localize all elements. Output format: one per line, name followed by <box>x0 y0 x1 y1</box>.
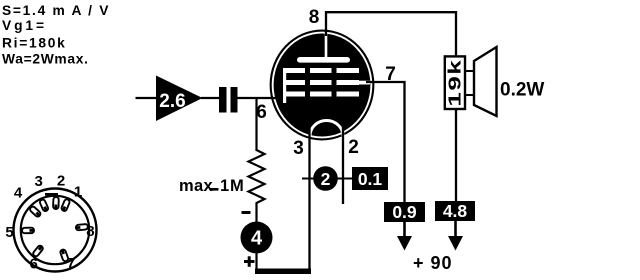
tube V1 envelope <box>270 30 375 141</box>
tube data text block <box>2 3 110 67</box>
socket key bar <box>45 193 58 196</box>
load resistor 19k (speaker impedance) <box>444 56 465 109</box>
tube anode (plate) <box>297 33 350 63</box>
svg-text:6: 6 <box>30 256 38 273</box>
arrow to +90 (screen supply) <box>397 222 412 251</box>
wire point4 to bottom bus <box>255 254 257 272</box>
svg-text:Ri=180k: Ri=180k <box>2 36 66 51</box>
svg-text:Wa=2Wmax.: Wa=2Wmax. <box>2 52 89 67</box>
svg-text:1: 1 <box>74 184 82 201</box>
measurement point 2 leader wire <box>302 178 353 180</box>
pin 3 cathode wire <box>308 127 310 271</box>
svg-text:3: 3 <box>35 173 43 190</box>
svg-text:4: 4 <box>14 185 23 202</box>
input wire <box>136 97 158 99</box>
svg-text:5: 5 <box>5 224 13 241</box>
svg-text:0.9: 0.9 <box>392 202 417 222</box>
wire 19k to 4.8 <box>455 109 457 202</box>
tube socket base outline <box>14 189 97 272</box>
wire triangle to capacitor <box>201 97 220 99</box>
svg-text:2: 2 <box>321 169 331 189</box>
svg-text:6: 6 <box>256 102 267 123</box>
plus polarity mark <box>244 256 255 267</box>
arrow to +90 (anode supply) <box>448 221 463 251</box>
svg-text:2.6: 2.6 <box>159 91 185 112</box>
pin 8 anode wire to 19k <box>326 12 456 57</box>
svg-text:Vg1=: Vg1= <box>2 18 47 33</box>
svg-text:max: max <box>179 177 213 195</box>
minus polarity mark <box>242 211 251 214</box>
tube control-grid lead (white, to pin 6) <box>283 68 286 103</box>
svg-text:0.2W: 0.2W <box>500 80 544 101</box>
voltage label 0.9 <box>384 202 425 222</box>
socket pin labels <box>5 173 94 273</box>
speaker leads <box>465 71 475 95</box>
bottom bus wire <box>255 269 311 275</box>
input level triangle 2.6 <box>156 76 203 122</box>
resistor R1 max.1M <box>179 150 265 222</box>
svg-text:8: 8 <box>86 223 94 240</box>
svg-text:2: 2 <box>348 137 359 158</box>
voltage label 0.1 <box>352 167 388 190</box>
speaker LS1 <box>474 47 497 116</box>
measurement point 2 <box>313 166 338 191</box>
svg-text:+ 90: + 90 <box>413 253 453 273</box>
grid resistor branch wire <box>255 98 257 151</box>
tube screen-grid lead (white, to pin 7) <box>357 81 370 85</box>
voltage label 4.8 <box>435 201 475 221</box>
svg-text:8: 8 <box>309 7 320 28</box>
socket pin contacts <box>22 197 88 262</box>
tube grids (3 dashed rows) <box>283 68 359 97</box>
capacitor C1 <box>219 87 238 113</box>
pin 7 screen wire <box>366 82 405 203</box>
pin 2 wire <box>342 125 344 204</box>
wire capacitor to grid pin 6 <box>238 97 284 99</box>
svg-text:2: 2 <box>57 173 65 190</box>
svg-text:7: 7 <box>67 255 75 272</box>
svg-text:3: 3 <box>293 138 304 159</box>
svg-text:S=1.4 m A / V: S=1.4 m A / V <box>2 3 110 18</box>
svg-text:19k: 19k <box>444 59 464 107</box>
svg-text:1M: 1M <box>220 177 245 195</box>
svg-text:4: 4 <box>251 228 263 250</box>
measurement point 4 <box>241 222 273 254</box>
svg-text:7: 7 <box>385 64 396 85</box>
tube cathode <box>310 120 343 136</box>
svg-text:4.8: 4.8 <box>443 201 468 221</box>
svg-text:0.1: 0.1 <box>358 169 383 189</box>
